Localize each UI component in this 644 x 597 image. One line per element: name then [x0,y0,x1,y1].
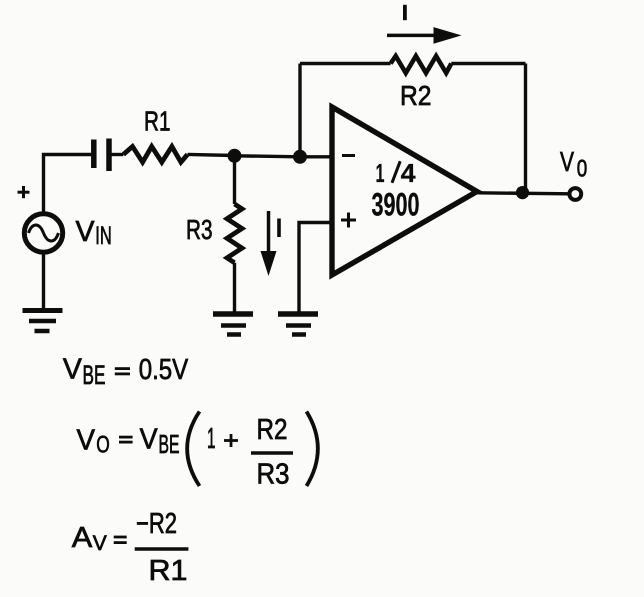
wire node B to inverting input [300,155,332,158]
svg-text:V: V [93,532,107,555]
svg-text:1: 1 [376,158,385,188]
label V0 [560,146,587,182]
capacitor [94,139,109,172]
node A junction [228,149,242,163]
output terminal [569,188,581,200]
formula V0 = VBE (1 + R2/R3) [77,412,318,491]
wire op-amp output [478,193,570,194]
label VIN [76,216,112,250]
label R3 [186,214,213,245]
node C output junction [516,186,529,199]
resistor R3 [227,204,242,263]
svg-text:−R2: −R2 [136,508,177,540]
svg-text:R1: R1 [144,106,171,137]
non-inverting input plus sign [341,213,356,228]
svg-text:R1: R1 [149,555,188,587]
svg-text:IN: IN [95,222,112,250]
op-amp U1 (1/4 3900) [332,107,477,275]
svg-text:V: V [63,354,83,386]
wire node B up to feedback [298,64,301,157]
wire R1 to node A [188,154,235,155]
svg-text:R3: R3 [257,459,290,491]
wire feedback down to output node [524,64,527,193]
node B junction [293,150,307,164]
label I (R3 current) [277,219,281,238]
current arrow I through R3 [261,211,277,276]
ground at non-inverting input [278,314,318,335]
wire R3 to ground [233,263,236,314]
label 1/4 [376,158,417,188]
label 3900 [372,187,420,223]
svg-text:4: 4 [401,158,417,188]
svg-text:3900: 3900 [372,187,420,223]
label R1 [144,106,171,137]
svg-text:0.5V: 0.5V [139,354,189,386]
svg-text:R2: R2 [257,414,288,446]
inverting input minus sign [342,154,355,157]
label R2 [400,80,432,111]
wire top feedback right segment [451,62,525,65]
plus polarity mark of V_IN [18,186,30,198]
svg-text:O: O [96,431,110,458]
svg-text:V: V [140,424,159,456]
formula AV = -R2/R1 [72,508,189,587]
source V_IN (AC source symbol) [24,214,62,252]
svg-text:V: V [77,425,96,457]
formula VBE = 0.5V [63,354,189,390]
wire node A to node B [235,156,301,157]
wire top feedback left segment [300,62,391,65]
ground under V_IN [23,311,63,332]
wire non-inverting input to ground [299,223,332,315]
svg-text:0: 0 [577,155,588,182]
svg-text:R2: R2 [400,80,432,111]
svg-text:BE: BE [83,360,106,390]
svg-text:R3: R3 [186,214,213,245]
wire capacitor to R1 [112,153,124,156]
svg-text:BE: BE [159,431,180,459]
svg-text:A: A [72,522,93,554]
wire V_IN top to capacitor [44,155,92,215]
wire V_IN bottom to ground [42,252,45,311]
resistor R2 [391,56,452,73]
resistor R1 [123,147,187,163]
wire node A down to R3 [233,156,236,204]
svg-text:V: V [76,216,96,248]
svg-text:1: 1 [207,423,216,455]
ground under R3 [213,314,253,335]
current arrow I feedback [387,27,462,44]
label I (feedback current) [403,5,407,20]
svg-text:V: V [560,146,575,177]
